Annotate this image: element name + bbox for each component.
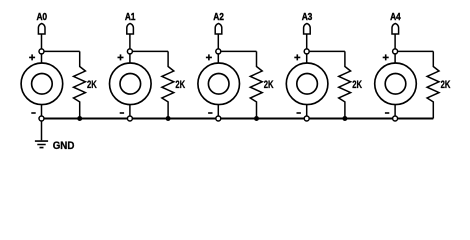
resistor 2 (2K)	[162, 51, 174, 118]
wire top junction to resistor 1	[42, 50, 80, 52]
transducer 3 inner ring	[208, 74, 229, 95]
wire top junction to resistor 5	[395, 50, 433, 52]
svg-text:2K: 2K	[175, 79, 185, 91]
bottom junction node cell 2	[127, 116, 132, 121]
plus polarity mark cell 4	[294, 54, 300, 60]
pin A2	[215, 24, 222, 35]
svg-text:A3: A3	[302, 12, 313, 23]
minus polarity mark cell 4	[297, 112, 301, 114]
transducer 1 inner ring	[32, 74, 53, 95]
wire transducer 2 to bottom junction	[129, 105, 131, 119]
minus polarity mark cell 5	[385, 112, 389, 114]
transducer 5 inner ring	[385, 74, 406, 95]
svg-text:A1: A1	[125, 12, 136, 23]
wire pin A1 to top junction	[129, 34, 131, 51]
junction dot resistor 1 to ground rail	[77, 116, 82, 121]
wire top junction to resistor 2	[130, 50, 168, 52]
wire transducer 1 to bottom junction	[41, 105, 43, 119]
transducer 4 inner ring	[297, 74, 318, 95]
wire pin A4 to top junction	[394, 34, 396, 51]
bottom junction node cell 1	[39, 116, 44, 121]
minus polarity mark cell 2	[120, 112, 124, 114]
svg-text:2K: 2K	[264, 79, 274, 91]
wire top junction to resistor 3	[218, 50, 256, 52]
pin A1	[127, 24, 134, 35]
wire transducer 5 to bottom junction	[394, 105, 396, 119]
top junction node A3	[304, 49, 309, 54]
top junction node A0	[39, 49, 44, 54]
wire transducer 4 to bottom junction	[306, 105, 308, 119]
wire top junction to transducer 3	[217, 51, 219, 63]
svg-text:2K: 2K	[87, 79, 97, 91]
transducer 3 outer ring	[198, 63, 240, 105]
resistor 4 (2K)	[339, 51, 351, 118]
plus polarity mark cell 2	[118, 54, 124, 60]
plus polarity mark cell 1	[29, 54, 35, 60]
wire top junction to resistor 4	[307, 50, 345, 52]
minus polarity mark cell 1	[31, 112, 35, 114]
resistor 3 (2K)	[250, 51, 262, 118]
wire top junction to transducer 2	[129, 51, 131, 63]
svg-text:GND: GND	[53, 140, 75, 152]
wire bottom junction to ground	[41, 119, 43, 141]
pin A0	[38, 24, 45, 35]
bottom junction node cell 5	[393, 116, 398, 121]
bottom junction node cell 4	[304, 116, 309, 121]
ground rail wire	[42, 118, 434, 120]
junction dot resistor 3 to ground rail	[254, 116, 259, 121]
top junction node A4	[393, 49, 398, 54]
transducer 1 outer ring	[21, 63, 63, 105]
pin A4	[392, 24, 399, 35]
transducer 2 inner ring	[120, 74, 141, 95]
svg-text:A4: A4	[390, 12, 401, 23]
wire top junction to transducer 1	[41, 51, 43, 63]
svg-text:2K: 2K	[352, 79, 362, 91]
svg-text:A0: A0	[37, 12, 48, 23]
wire top junction to transducer 5	[394, 51, 396, 63]
plus polarity mark cell 5	[383, 54, 389, 60]
wire top junction to transducer 4	[306, 51, 308, 63]
pin A3	[304, 24, 311, 35]
junction dot resistor 4 to ground rail	[342, 116, 347, 121]
plus polarity mark cell 3	[206, 54, 212, 60]
bottom junction node cell 3	[216, 116, 221, 121]
transducer 5 outer ring	[375, 63, 417, 105]
wire pin A0 to top junction	[41, 34, 43, 51]
wire transducer 3 to bottom junction	[217, 105, 219, 119]
top junction node A1	[127, 49, 132, 54]
ground	[35, 141, 48, 148]
resistor 5 (2K)	[427, 51, 439, 118]
svg-text:2K: 2K	[441, 79, 451, 91]
svg-text:A2: A2	[213, 12, 224, 23]
resistor 1 (2K)	[74, 51, 86, 118]
junction dot resistor 2 to ground rail	[166, 116, 171, 121]
wire pin A3 to top junction	[306, 34, 308, 51]
top junction node A2	[216, 49, 221, 54]
transducer 4 outer ring	[286, 63, 328, 105]
transducer 2 outer ring	[110, 63, 152, 105]
wire pin A2 to top junction	[217, 34, 219, 51]
minus polarity mark cell 3	[208, 112, 212, 114]
